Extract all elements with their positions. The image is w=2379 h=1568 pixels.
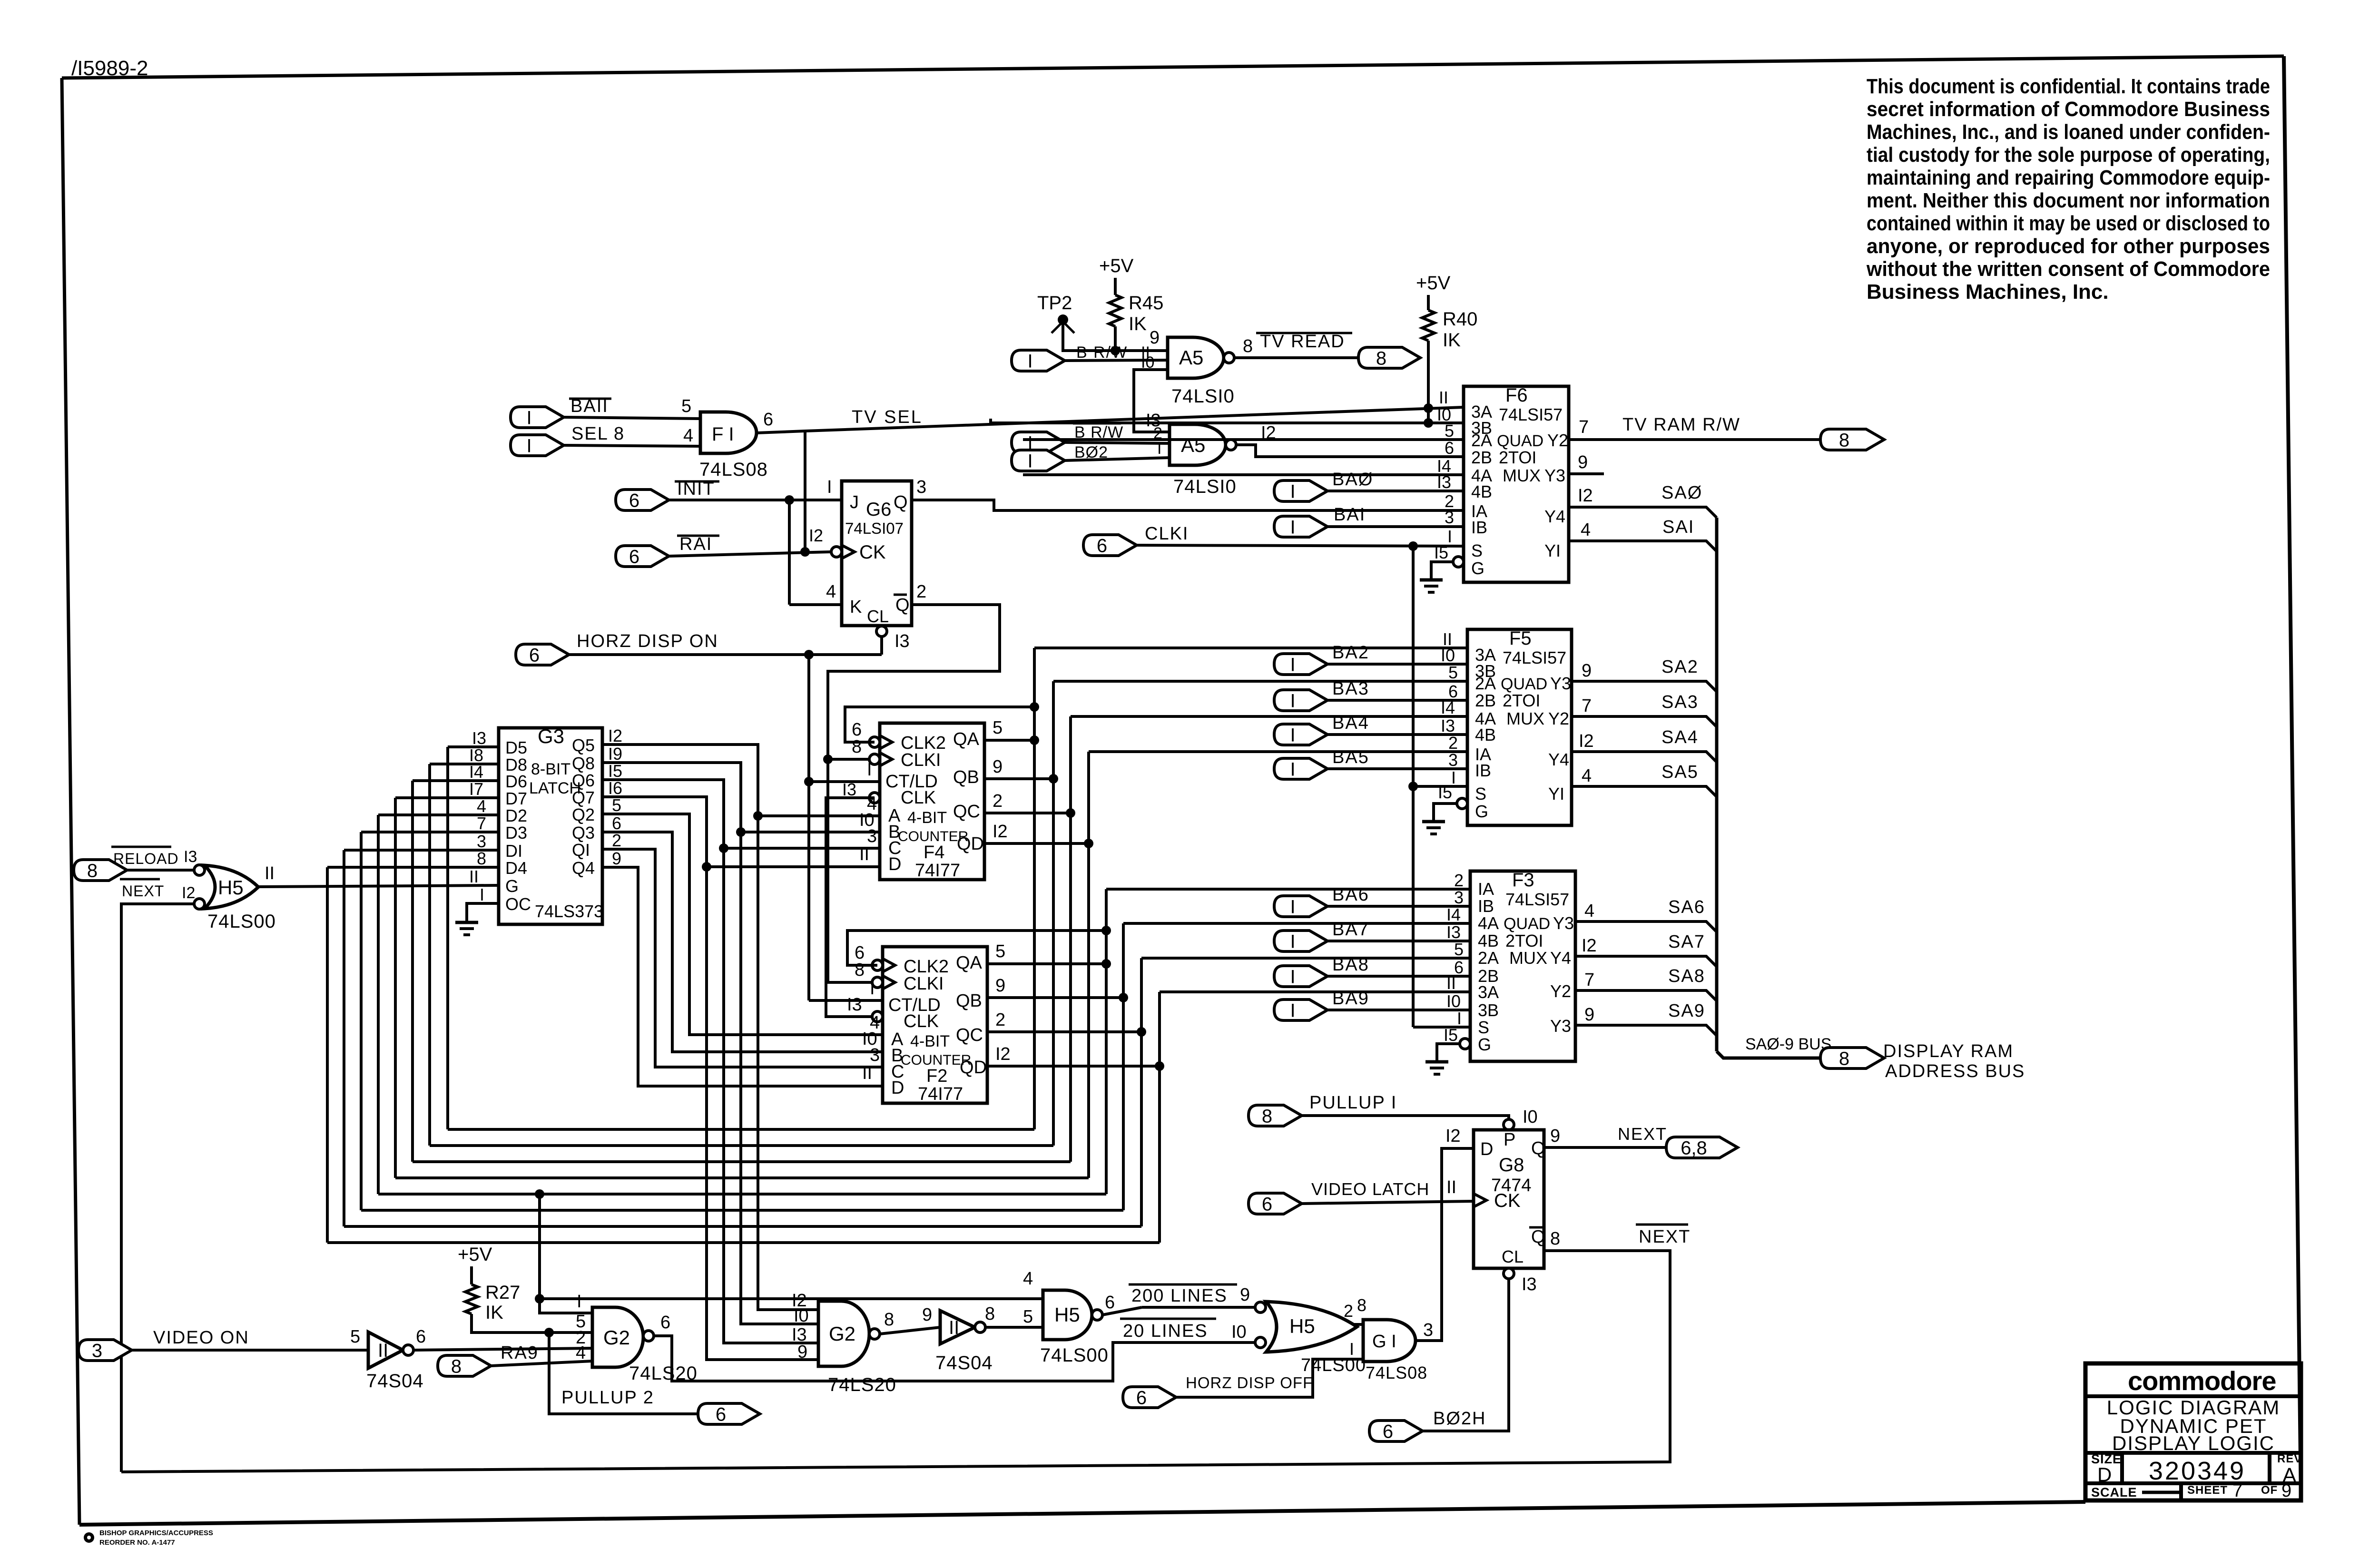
svg-text:Y3: Y3: [1550, 1016, 1571, 1036]
svg-text:I: I: [1290, 654, 1295, 675]
svg-text:2TOI: 2TOI: [1499, 448, 1536, 467]
svg-text:I3: I3: [1446, 922, 1461, 942]
svg-text:Y2: Y2: [1550, 981, 1571, 1001]
svg-text:PULLUP 2: PULLUP 2: [561, 1388, 654, 1408]
svg-text:9: 9: [1582, 661, 1592, 681]
wire F3 3A from counter: [1160, 990, 1470, 993]
svg-text:74LSI57: 74LSI57: [1505, 890, 1569, 909]
svg-text:74LS00: 74LS00: [1040, 1345, 1109, 1366]
svg-text:I: I: [827, 477, 832, 497]
svg-text:QB: QB: [953, 767, 979, 787]
wire B R/W lower to A5 pin 2: [1065, 424, 1170, 443]
svg-text:4: 4: [477, 796, 486, 816]
svg-text:6: 6: [1445, 438, 1454, 458]
svg-text:Y3: Y3: [1553, 913, 1574, 933]
signal label TV RAM R/W: [1622, 415, 1740, 435]
svg-text:4: 4: [1582, 766, 1592, 786]
commodore logo text: [2128, 1366, 2276, 1396]
svg-text:CLK: CLK: [901, 788, 936, 808]
svg-text:74S04: 74S04: [935, 1352, 993, 1373]
wire F6 3B: [991, 419, 1464, 423]
svg-text:I4: I4: [1446, 905, 1461, 924]
wire F6 2A: [1023, 438, 1464, 441]
wire F5 Y4 output SA4: [1572, 731, 1717, 762]
wire A5 pin 10 to lower gate pin 13: [1134, 353, 1170, 432]
wire F5 Y1 output SA5: [1572, 766, 1717, 797]
svg-text:QA: QA: [956, 953, 983, 973]
signal label BA7: [1332, 920, 1369, 940]
svg-text:20 LINES: 20 LINES: [1123, 1321, 1208, 1341]
wire NEXT to H5 pin 12: [121, 884, 195, 1472]
svg-text:SA2: SA2: [1661, 657, 1699, 677]
svg-text:IA: IA: [1478, 879, 1494, 899]
svg-text:G2: G2: [603, 1326, 630, 1349]
svg-text:4B: 4B: [1478, 931, 1499, 951]
svg-text:Q4: Q4: [572, 858, 595, 878]
signal label NEXT with overline: [120, 879, 164, 900]
svg-text:74S04: 74S04: [366, 1371, 424, 1392]
signal label SA8: [1668, 966, 1705, 986]
svg-text:NEXT: NEXT: [1639, 1227, 1691, 1247]
svg-text:6: 6: [1105, 1293, 1115, 1313]
svg-text:+5V: +5V: [1416, 273, 1451, 294]
svg-text:I0: I0: [794, 1306, 809, 1326]
svg-text:8: 8: [852, 737, 862, 757]
input tag 1 BA2: [1274, 654, 1327, 675]
input tag 1 BA8: [1274, 966, 1327, 987]
svg-text:DISPLAY RAM: DISPLAY RAM: [1883, 1041, 2014, 1061]
svg-text:8: 8: [884, 1310, 894, 1330]
svg-text:6: 6: [660, 1313, 670, 1333]
svg-text:QB: QB: [956, 991, 982, 1011]
svg-text:6: 6: [529, 645, 540, 666]
signal label BA0: [1332, 470, 1373, 490]
svg-text:SHEET: SHEET: [2187, 1484, 2228, 1497]
wire G8 Qbar output label: [1550, 1229, 1560, 1249]
signal label NEXT at G8: [1618, 1124, 1667, 1144]
svg-text:F3: F3: [1512, 870, 1534, 891]
svg-text:D5: D5: [505, 738, 527, 757]
svg-text:Q: Q: [1531, 1138, 1545, 1158]
svg-text:HORZ DISP OFF: HORZ DISP OFF: [1186, 1374, 1313, 1392]
wire F5 3A from counter: [1034, 647, 1467, 649]
svg-text:4: 4: [826, 582, 836, 602]
svg-text:I: I: [1290, 690, 1295, 711]
label 74LS20 under G2 left: [629, 1363, 698, 1384]
wires bottom feedback bundle: [327, 1129, 1160, 1243]
svg-text:II: II: [859, 844, 869, 864]
inverter I1 74S04 right: [940, 1311, 985, 1344]
wire G1 output to G8 D: [1416, 1148, 1474, 1341]
svg-text:I: I: [1027, 351, 1032, 372]
signal label RA9: [501, 1343, 539, 1363]
svg-text:9: 9: [1240, 1285, 1250, 1305]
multiplexer F6 74LS157 box: [1464, 385, 1569, 582]
svg-text:without the written consent of: without the written consent of Commodore: [1866, 257, 2270, 281]
top border line: [62, 56, 2284, 78]
svg-text:5: 5: [1023, 1307, 1033, 1327]
svg-text:I2: I2: [1445, 1126, 1461, 1146]
F5 G enable bubble pin 15: [1434, 798, 1467, 821]
wire BA1 to F6 1B: [1327, 525, 1464, 528]
svg-text:7: 7: [477, 813, 486, 833]
G3 right pin numbers: [608, 726, 622, 868]
svg-text:I2: I2: [809, 526, 823, 545]
signal label 200 LINES with overline: [1129, 1284, 1237, 1306]
svg-text:MUX: MUX: [1503, 466, 1541, 485]
svg-text:7: 7: [1582, 696, 1592, 716]
svg-text:I2: I2: [1579, 731, 1594, 751]
signal label SEL 8: [571, 424, 625, 444]
wire BA5 to F5 1B: [1327, 767, 1467, 770]
svg-text:Q5: Q5: [572, 735, 595, 755]
wire INIT to G6 J pin 1: [669, 477, 842, 505]
svg-text:RA9: RA9: [501, 1343, 539, 1363]
signal label INIT with overline: [675, 479, 719, 499]
svg-text:F6: F6: [1505, 385, 1528, 406]
wire RELOAD to H5 pin 13: [127, 848, 197, 870]
wire BA0 to F6 4B: [1327, 490, 1464, 492]
label 74LS00 under H5 middle: [1040, 1345, 1109, 1366]
signal label SA1: [1662, 517, 1694, 537]
label 74S04 under inverter left: [366, 1371, 424, 1392]
wire F2 QC pin 2: [987, 1010, 1146, 1037]
svg-text:II: II: [1439, 388, 1448, 407]
svg-text:G2: G2: [829, 1323, 855, 1345]
svg-text:SAØ-9 BUS: SAØ-9 BUS: [1745, 1035, 1831, 1053]
signal label BA1: [1334, 505, 1366, 525]
wire BA8 to F3 2B: [1327, 975, 1470, 978]
svg-text:4: 4: [1023, 1269, 1033, 1289]
input tag 1 BA11: [511, 407, 564, 428]
multiplexer F3 74LS157 box: [1470, 870, 1575, 1061]
wire F4 QC pin 2: [984, 791, 1075, 818]
G2 left pin numbers: [576, 1292, 586, 1363]
svg-text:CL: CL: [867, 607, 889, 626]
wire F5 4A from counter: [1071, 715, 1467, 718]
label 74LS08 under G1: [1366, 1363, 1427, 1382]
svg-text:2: 2: [1454, 871, 1464, 890]
svg-text:REV: REV: [2277, 1452, 2302, 1465]
svg-text:A5: A5: [1181, 434, 1205, 456]
input tag 6 VIDEO LATCH: [1248, 1193, 1302, 1215]
svg-text:MUX: MUX: [1509, 948, 1547, 968]
svg-text:D: D: [891, 1078, 904, 1098]
svg-text:secret information of Commodor: secret information of Commodore Business: [1867, 98, 2270, 121]
wire F5 Y2 output SA3: [1572, 696, 1717, 727]
svg-text:8: 8: [1243, 336, 1253, 356]
svg-text:Y4: Y4: [1544, 507, 1565, 526]
svg-text:74LSI57: 74LSI57: [1503, 648, 1566, 667]
signal label BA3: [1332, 679, 1369, 699]
wire F2 QA pin 5: [987, 941, 1111, 969]
svg-text:9: 9: [2281, 1481, 2291, 1501]
input tag 6 B02H: [1369, 1421, 1423, 1442]
wire CLK1 to F6 S pin 1: [1137, 541, 1464, 551]
svg-text:RAI: RAI: [679, 534, 712, 554]
svg-text:8: 8: [451, 1356, 462, 1377]
nand-gate A5 74LS10 lower: [1170, 424, 1236, 465]
signal label BA5: [1332, 747, 1369, 767]
vertical bus V2 QB: [1052, 681, 1055, 1146]
wire B R/W to A5 pin 11: [1065, 343, 1168, 362]
wire BA9 to F3 3B: [1327, 1009, 1470, 1011]
wire BA6 to F3 1B: [1327, 905, 1470, 908]
svg-text:Q7: Q7: [572, 788, 595, 807]
junction dots on Q columns: [702, 811, 763, 872]
wire B02H to G8 clear: [1423, 1279, 1509, 1431]
svg-text:I2: I2: [182, 884, 195, 902]
svg-text:BAØ: BAØ: [1332, 470, 1373, 490]
F2 CLK1 input pin 8: [855, 960, 895, 989]
power +5V for R45: [1099, 255, 1134, 295]
svg-text:9: 9: [1578, 452, 1588, 472]
label 74LS00 under H5 left: [207, 911, 276, 932]
svg-text:I: I: [526, 435, 531, 456]
nand-gate G2 74LS20 right: [818, 1301, 880, 1366]
svg-text:6: 6: [1383, 1421, 1393, 1442]
svg-text:2B: 2B: [1475, 691, 1496, 710]
svg-text:IK: IK: [485, 1302, 503, 1323]
svg-text:TV SEL: TV SEL: [852, 407, 923, 427]
svg-text:2TOI: 2TOI: [1505, 931, 1543, 951]
svg-text:II: II: [1446, 1177, 1456, 1197]
svg-text:IB: IB: [1478, 896, 1494, 916]
signal label PULLUP 2: [561, 1388, 654, 1408]
svg-text:I: I: [526, 407, 531, 428]
svg-text:SEL 8: SEL 8: [571, 424, 625, 444]
F4 CT/LD pin 1: [809, 760, 880, 782]
wire R27 to G2 pin 5: [472, 1314, 592, 1337]
svg-text:SAØ: SAØ: [1661, 483, 1702, 503]
wire F6 3A from TV SEL junction: [1424, 403, 1433, 413]
svg-text:REORDER NO. A-1477: REORDER NO. A-1477: [99, 1539, 175, 1547]
wire TV READ output: [1234, 336, 1358, 358]
svg-text:2A: 2A: [1471, 431, 1492, 450]
G6 CL bubble pin 13: [876, 626, 910, 655]
svg-text:II: II: [378, 1340, 388, 1361]
svg-text:G6: G6: [866, 499, 891, 520]
svg-text:I: I: [1027, 451, 1032, 471]
svg-text:TV RAM R/W: TV RAM R/W: [1622, 415, 1740, 435]
and-gate F1 74LS08: [700, 412, 757, 453]
svg-text:74LS373: 74LS373: [535, 902, 603, 921]
svg-text:H5: H5: [218, 876, 244, 899]
F6 left pin numbers: [1434, 388, 1454, 562]
svg-text:3: 3: [870, 1045, 880, 1065]
svg-text:ADDRESS BUS: ADDRESS BUS: [1885, 1061, 2025, 1081]
label 74S04 under inverter right: [935, 1352, 993, 1373]
vertical bus V5: [1105, 889, 1108, 1194]
wire TV SEL branch down to G6 CK: [800, 431, 810, 557]
svg-text:I3: I3: [184, 848, 197, 866]
svg-text:VIDEO LATCH: VIDEO LATCH: [1311, 1179, 1429, 1199]
H5 middle pin numbers: [1023, 1269, 1115, 1327]
wire G2 output to 20 LINES: [654, 1313, 1255, 1381]
counter F2 74177 box: [883, 947, 987, 1104]
input tag 1 BA1: [1274, 516, 1327, 538]
svg-text:F5: F5: [1509, 628, 1532, 649]
vertical bus V3 QC: [1069, 716, 1072, 1162]
input tag 1 SEL 8: [511, 435, 564, 456]
svg-text:4B: 4B: [1475, 725, 1496, 745]
vertical bus V4 QD: [1087, 752, 1090, 1178]
svg-text:I3: I3: [1441, 716, 1455, 735]
signal label RA1 with overline: [677, 534, 719, 554]
svg-text:2B: 2B: [1471, 448, 1492, 467]
svg-text:II: II: [949, 1317, 959, 1338]
svg-text:5: 5: [350, 1327, 360, 1347]
input tag 1 BA6: [1274, 896, 1327, 917]
svg-text:BA7: BA7: [1332, 920, 1369, 940]
svg-text:I: I: [1290, 896, 1295, 917]
svg-text:SA9: SA9: [1668, 1001, 1705, 1021]
svg-text:S: S: [1478, 1018, 1489, 1037]
F2 CLK pin 13: [847, 995, 883, 1022]
svg-text:74LS00: 74LS00: [207, 911, 276, 932]
svg-text:9: 9: [995, 976, 1005, 996]
output tag 6 PULLUP 2: [698, 1403, 760, 1425]
svg-text:Q: Q: [1531, 1227, 1545, 1247]
svg-text:P: P: [1504, 1130, 1515, 1150]
svg-text:I: I: [1290, 1000, 1295, 1021]
svg-text:QI: QI: [572, 840, 590, 860]
resistor R45 1K: [1109, 293, 1163, 334]
nand-gate H5 74LS00 left: [194, 865, 258, 909]
svg-text:5: 5: [1448, 663, 1458, 682]
signal label SA0-9 BUS: [1745, 1035, 1831, 1053]
wire RA9 to G2 pin 4: [491, 1361, 592, 1366]
svg-text:R40: R40: [1443, 309, 1477, 330]
label DISPLAY RAM: [1883, 1041, 2014, 1061]
input tag 6 INIT: [616, 490, 669, 511]
wire F6 4A: [1023, 473, 1464, 476]
title block outer box: [2085, 1363, 2301, 1500]
wires G3 Q outputs to counter load inputs: [602, 745, 883, 1086]
svg-text:200 LINES: 200 LINES: [1131, 1286, 1228, 1306]
resistor R27 1K: [465, 1282, 520, 1323]
label 74LS10 lower: [1173, 476, 1237, 497]
svg-text:Q2: Q2: [572, 805, 595, 824]
svg-text:I2: I2: [1578, 486, 1593, 506]
svg-text:I6: I6: [608, 778, 622, 798]
svg-text:D2: D2: [505, 806, 527, 825]
svg-text:CLK: CLK: [904, 1011, 939, 1031]
svg-text:YI: YI: [1548, 784, 1564, 804]
svg-text:I: I: [1157, 440, 1161, 458]
wire PULLUP 1 to G8 preset: [1302, 1116, 1509, 1119]
svg-text:8: 8: [1550, 1229, 1560, 1249]
svg-text:IB: IB: [1475, 761, 1491, 780]
svg-text:DI: DI: [505, 841, 522, 861]
svg-text:II: II: [265, 863, 275, 883]
svg-text:I3: I3: [847, 995, 862, 1015]
svg-text:Q8: Q8: [572, 754, 595, 773]
svg-text:contained within it may be use: contained within it may be used or discl…: [1867, 212, 2270, 235]
wire BA7 to F3 4B: [1327, 940, 1470, 942]
wire HORZ DISP OFF to G1 pin 1: [1176, 1359, 1363, 1397]
svg-text:F I: F I: [712, 424, 734, 445]
G8 preset bubble pin 10: [1504, 1107, 1538, 1130]
svg-text:2: 2: [612, 831, 621, 850]
svg-text:I: I: [1290, 725, 1295, 745]
svg-text:2: 2: [916, 582, 926, 602]
svg-text:Q3: Q3: [572, 823, 595, 843]
svg-text:A5: A5: [1179, 346, 1203, 369]
wire inverter output to G2 pin 2: [413, 1327, 592, 1350]
svg-text:I3: I3: [842, 780, 856, 799]
svg-text:6: 6: [629, 490, 639, 511]
svg-text:I3: I3: [895, 631, 910, 651]
wire F6 Y2 output pin 7: [1569, 417, 1820, 440]
svg-text:CL: CL: [1502, 1247, 1524, 1266]
svg-text:This document is confidential.: This document is confidential. It contai…: [1867, 75, 2270, 98]
svg-text:I0: I0: [1446, 991, 1461, 1011]
input tag 1 BA7: [1274, 931, 1327, 952]
svg-text:I0: I0: [1231, 1322, 1247, 1342]
F4 CLK2 input pin 6: [845, 702, 1039, 749]
G3 left pin numbers: [469, 728, 486, 904]
svg-text:5: 5: [995, 941, 1005, 961]
svg-text:3: 3: [1454, 888, 1464, 907]
wire F3 2A from counter: [1141, 957, 1470, 960]
wire F6 Y3 stub pin 9: [1569, 452, 1604, 474]
wires Q columns down to G2 gate inputs: [707, 816, 818, 1360]
svg-text:Y3: Y3: [1550, 674, 1571, 693]
output tag 8 SA bus: [1820, 1048, 1884, 1069]
svg-text:74I77: 74I77: [918, 1084, 963, 1104]
svg-text:6: 6: [716, 1404, 726, 1425]
svg-text:QC: QC: [953, 802, 980, 822]
signal label B R/W upper: [1076, 343, 1128, 362]
input tag 6 RA1: [616, 546, 669, 567]
signal label SA5: [1661, 762, 1699, 782]
svg-text:CLKI: CLKI: [1145, 524, 1189, 544]
svg-text:9: 9: [1550, 1126, 1560, 1146]
wire F5 Y3 output SA2: [1572, 661, 1717, 692]
svg-text:NEXT: NEXT: [1618, 1124, 1667, 1144]
svg-text:3: 3: [867, 826, 877, 846]
svg-text:6,8: 6,8: [1681, 1137, 1707, 1158]
svg-text:Q: Q: [895, 595, 910, 615]
wire PULLUP 2 branch: [549, 1333, 698, 1414]
counter F4 74177 box: [880, 723, 984, 881]
svg-text:QA: QA: [953, 729, 980, 749]
svg-text:2: 2: [1344, 1301, 1353, 1321]
svg-text:YI: YI: [1544, 541, 1561, 560]
wire BA2 to F5 3B: [1327, 663, 1467, 666]
svg-text:I2: I2: [993, 822, 1008, 842]
svg-text:3A: 3A: [1478, 982, 1499, 1002]
jk-flip-flop G6 74LS107: [831, 481, 912, 626]
svg-text:BA5: BA5: [1332, 747, 1369, 767]
input tag 6 CLK1: [1083, 535, 1137, 556]
wires G3 D inputs: [327, 747, 499, 867]
svg-text:BA3: BA3: [1332, 679, 1369, 699]
svg-text:SCALE: SCALE: [2091, 1485, 2137, 1499]
svg-text:3: 3: [92, 1340, 102, 1361]
svg-text:R45: R45: [1129, 293, 1163, 314]
inverter I1 74S04 left: [368, 1332, 413, 1368]
input tag 1 BA5: [1274, 758, 1327, 780]
wire F5 2A from counter: [1053, 680, 1467, 683]
svg-text:3: 3: [1445, 508, 1454, 527]
signal label BA2: [1332, 643, 1369, 663]
F2 CLK2 input pin 6: [847, 926, 1111, 972]
svg-text:3: 3: [1448, 750, 1458, 770]
size cell label: [2091, 1452, 2122, 1486]
signal label BA4: [1332, 713, 1369, 733]
